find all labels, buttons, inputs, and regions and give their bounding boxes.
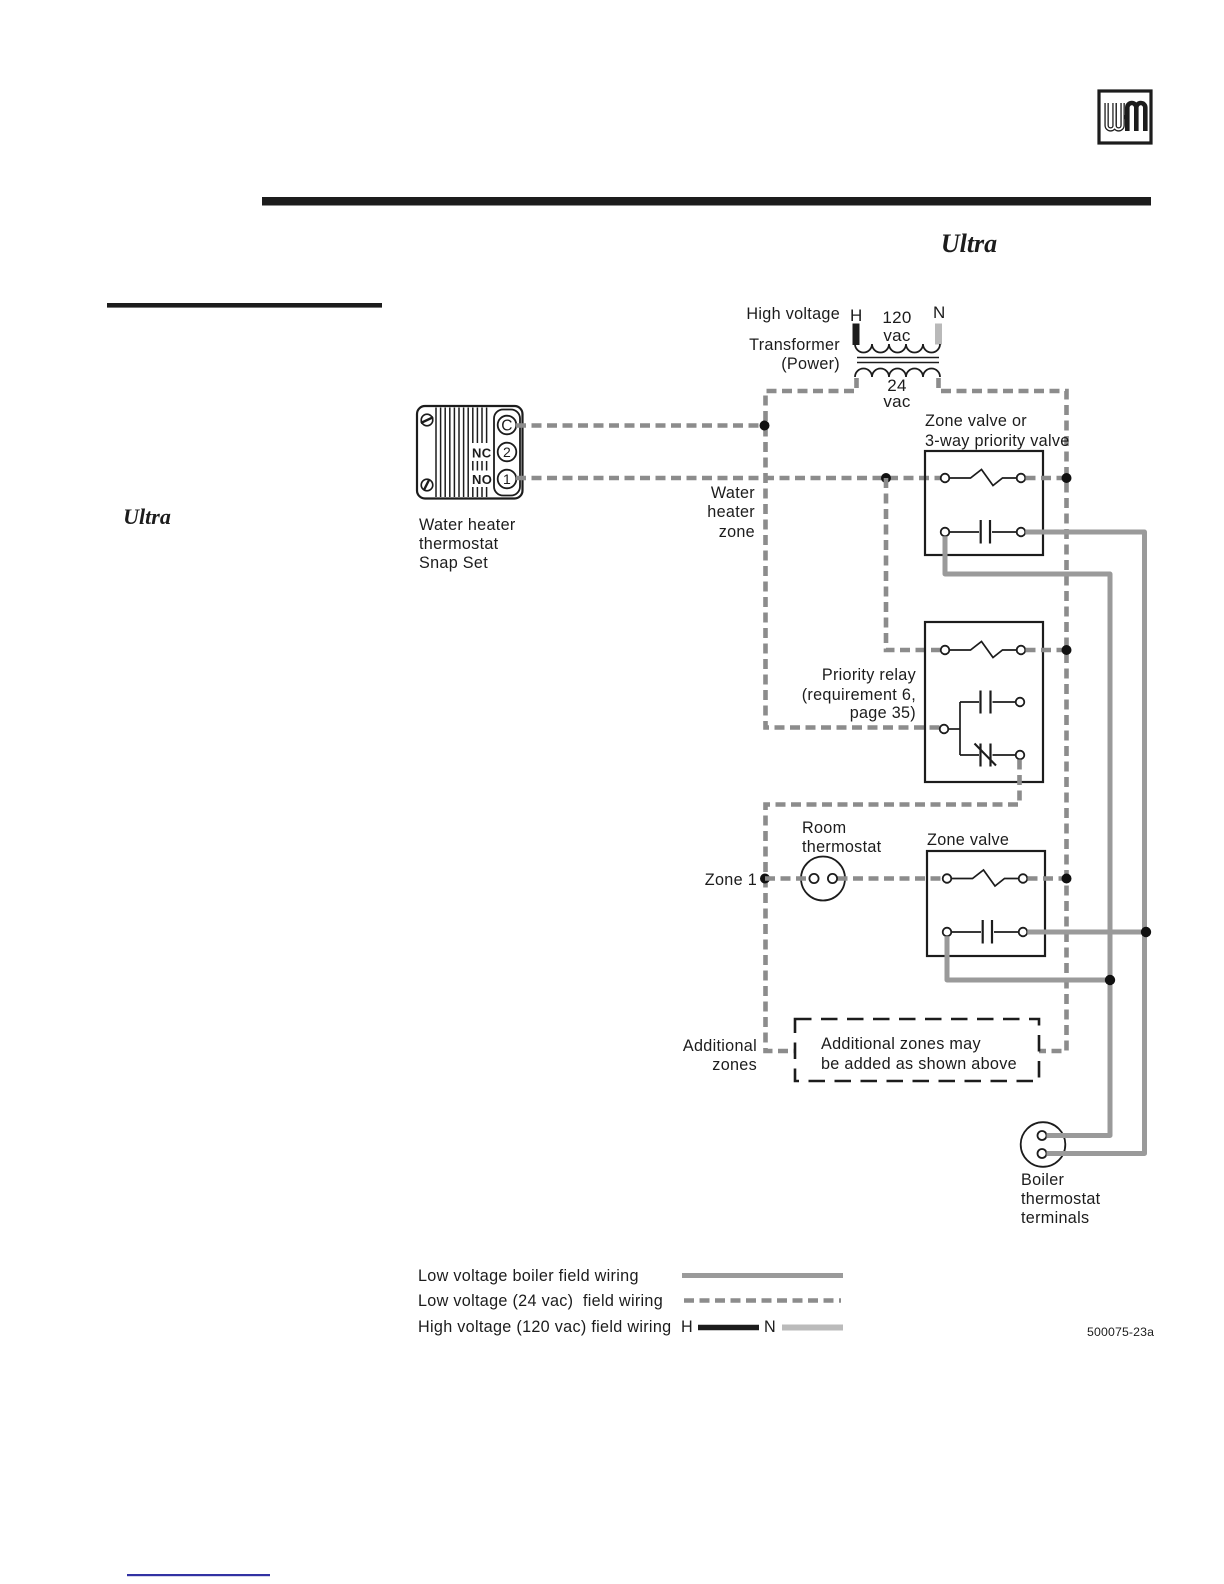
junction right bus at relay [1062, 645, 1072, 655]
svg-text:1: 1 [503, 471, 511, 487]
svg-text:Zone valve or: Zone valve or [925, 412, 1027, 430]
svg-text:Water: Water [711, 484, 755, 502]
wire 24vac right leg (secondary down right bus) [939, 378, 1067, 1051]
junction water heater zone [881, 473, 891, 483]
transformer T1 primary winding [855, 344, 940, 353]
left section rule [107, 303, 382, 308]
svg-text:Snap Set: Snap Set [419, 554, 488, 572]
svg-text:page 35): page 35) [850, 704, 916, 722]
svg-text:thermostat: thermostat [1021, 1190, 1101, 1208]
svg-text:N: N [933, 303, 946, 322]
svg-text:thermostat: thermostat [802, 838, 882, 856]
svg-text:N: N [764, 1318, 776, 1336]
svg-text:thermostat: thermostat [419, 535, 499, 553]
svg-text:500075-23a: 500075-23a [1087, 1325, 1154, 1339]
terminal 2 [498, 443, 517, 462]
wire room thermostat to zone valve [838, 876, 944, 881]
zone valve box [927, 851, 1045, 956]
relay NC contact branch [960, 744, 1024, 767]
wire water heater zone branch to priority relay [886, 478, 940, 650]
svg-text:High voltage: High voltage [746, 305, 840, 323]
svg-text:Ultra: Ultra [941, 229, 997, 258]
room thermostat terminals [809, 874, 837, 883]
svg-text:be added as shown above: be added as shown above [821, 1055, 1017, 1073]
svg-text:(Power): (Power) [781, 355, 840, 373]
footer rule (blue) [127, 1574, 270, 1576]
priority relay box [925, 622, 1043, 782]
svg-text:Additional zones may: Additional zones may [821, 1035, 981, 1053]
svg-text:High voltage (120 vac) field w: High voltage (120 vac) field wiring [418, 1318, 671, 1336]
svg-text:120: 120 [882, 308, 911, 327]
boiler wire zone valve motor right [1027, 930, 1147, 935]
svg-text:3-way priority valve: 3-way priority valve [925, 432, 1070, 450]
wire zone 1 to room thermostat [765, 876, 810, 881]
svg-text:NC: NC [472, 446, 492, 461]
svg-text:heater: heater [707, 503, 755, 521]
svg-text:2: 2 [503, 444, 511, 460]
svg-text:zone: zone [719, 523, 755, 541]
wire relay switch to right bus [1026, 648, 1067, 653]
wire zone valve switch to right bus [1028, 876, 1067, 881]
zone valve / 3-way priority valve box [925, 451, 1043, 555]
top rule bar [262, 197, 1151, 206]
transformer T1 secondary winding (24 vac) [855, 369, 940, 378]
junction right bus at valve switch [1062, 473, 1072, 483]
svg-text:terminals: terminals [1021, 1209, 1089, 1227]
wire 24vac left leg (secondary to relay input) [766, 378, 941, 728]
transformer T1 core [857, 357, 939, 359]
svg-text:Zone 1: Zone 1 [705, 871, 757, 889]
zone valve motor coil [943, 920, 1028, 944]
wire C terminal to 24vac bus [516, 423, 766, 428]
valve motor coil [941, 520, 1026, 544]
room thermostat body [801, 857, 845, 901]
junction right bus at zone valve [1062, 874, 1072, 884]
wire valve end switch to right bus [1026, 476, 1067, 481]
wire terminal 1 to water heater zone valve [516, 476, 941, 481]
svg-text:Boiler: Boiler [1021, 1171, 1064, 1189]
svg-text:Room: Room [802, 819, 846, 837]
svg-text:Transformer: Transformer [749, 336, 840, 354]
boiler wire zone valve motor left [947, 936, 1110, 980]
additional zones box (dashed) [795, 1019, 1039, 1081]
svg-text:H: H [850, 306, 863, 325]
svg-text:H: H [681, 1318, 693, 1336]
boiler wire from valve motor left [945, 536, 1110, 1135]
svg-text:NO: NO [472, 472, 492, 487]
zone valve end switch contacts [943, 870, 1028, 886]
N neutral lead bar (120vac) [935, 324, 942, 345]
terminal C [498, 416, 517, 435]
svg-text:vac: vac [883, 392, 911, 411]
junction boiler wire right [1141, 927, 1151, 937]
junction C wire [760, 421, 770, 431]
wire stub boiler bottom terminal [1047, 1151, 1071, 1156]
terminal 1 [498, 470, 517, 489]
H hot lead bar (120vac) [853, 324, 860, 346]
valve end switch contacts [941, 470, 1026, 486]
svg-text:Priority relay: Priority relay [822, 666, 917, 684]
svg-text:Low voltage (24 vac) field wi: Low voltage (24 vac) field wiring [418, 1292, 663, 1310]
Weil-McLain logo [1099, 91, 1151, 143]
svg-text:Ultra: Ultra [123, 504, 171, 529]
svg-text:(requirement 6,: (requirement 6, [802, 686, 916, 704]
wire relay NC out to zone 1 loop [766, 760, 1020, 1052]
junction boiler wire left [1105, 975, 1115, 985]
svg-text:Water heater: Water heater [419, 516, 516, 534]
svg-text:Additional: Additional [683, 1037, 757, 1055]
junction zone 1 [760, 874, 770, 884]
wire stub boiler top terminal [1047, 1133, 1071, 1138]
boiler thermostat terminals [1021, 1122, 1066, 1167]
relay switch contacts [941, 642, 1026, 658]
relay coil branch [940, 691, 1025, 756]
svg-text:Zone valve: Zone valve [927, 831, 1009, 849]
svg-text:zones: zones [712, 1056, 757, 1074]
svg-text:Low voltage boiler field wirin: Low voltage boiler field wiring [418, 1267, 639, 1285]
water heater thermostat snap set [417, 406, 523, 499]
svg-text:vac: vac [883, 326, 911, 345]
boiler wire from valve motor right [1025, 532, 1144, 1154]
svg-text:C: C [501, 418, 513, 435]
